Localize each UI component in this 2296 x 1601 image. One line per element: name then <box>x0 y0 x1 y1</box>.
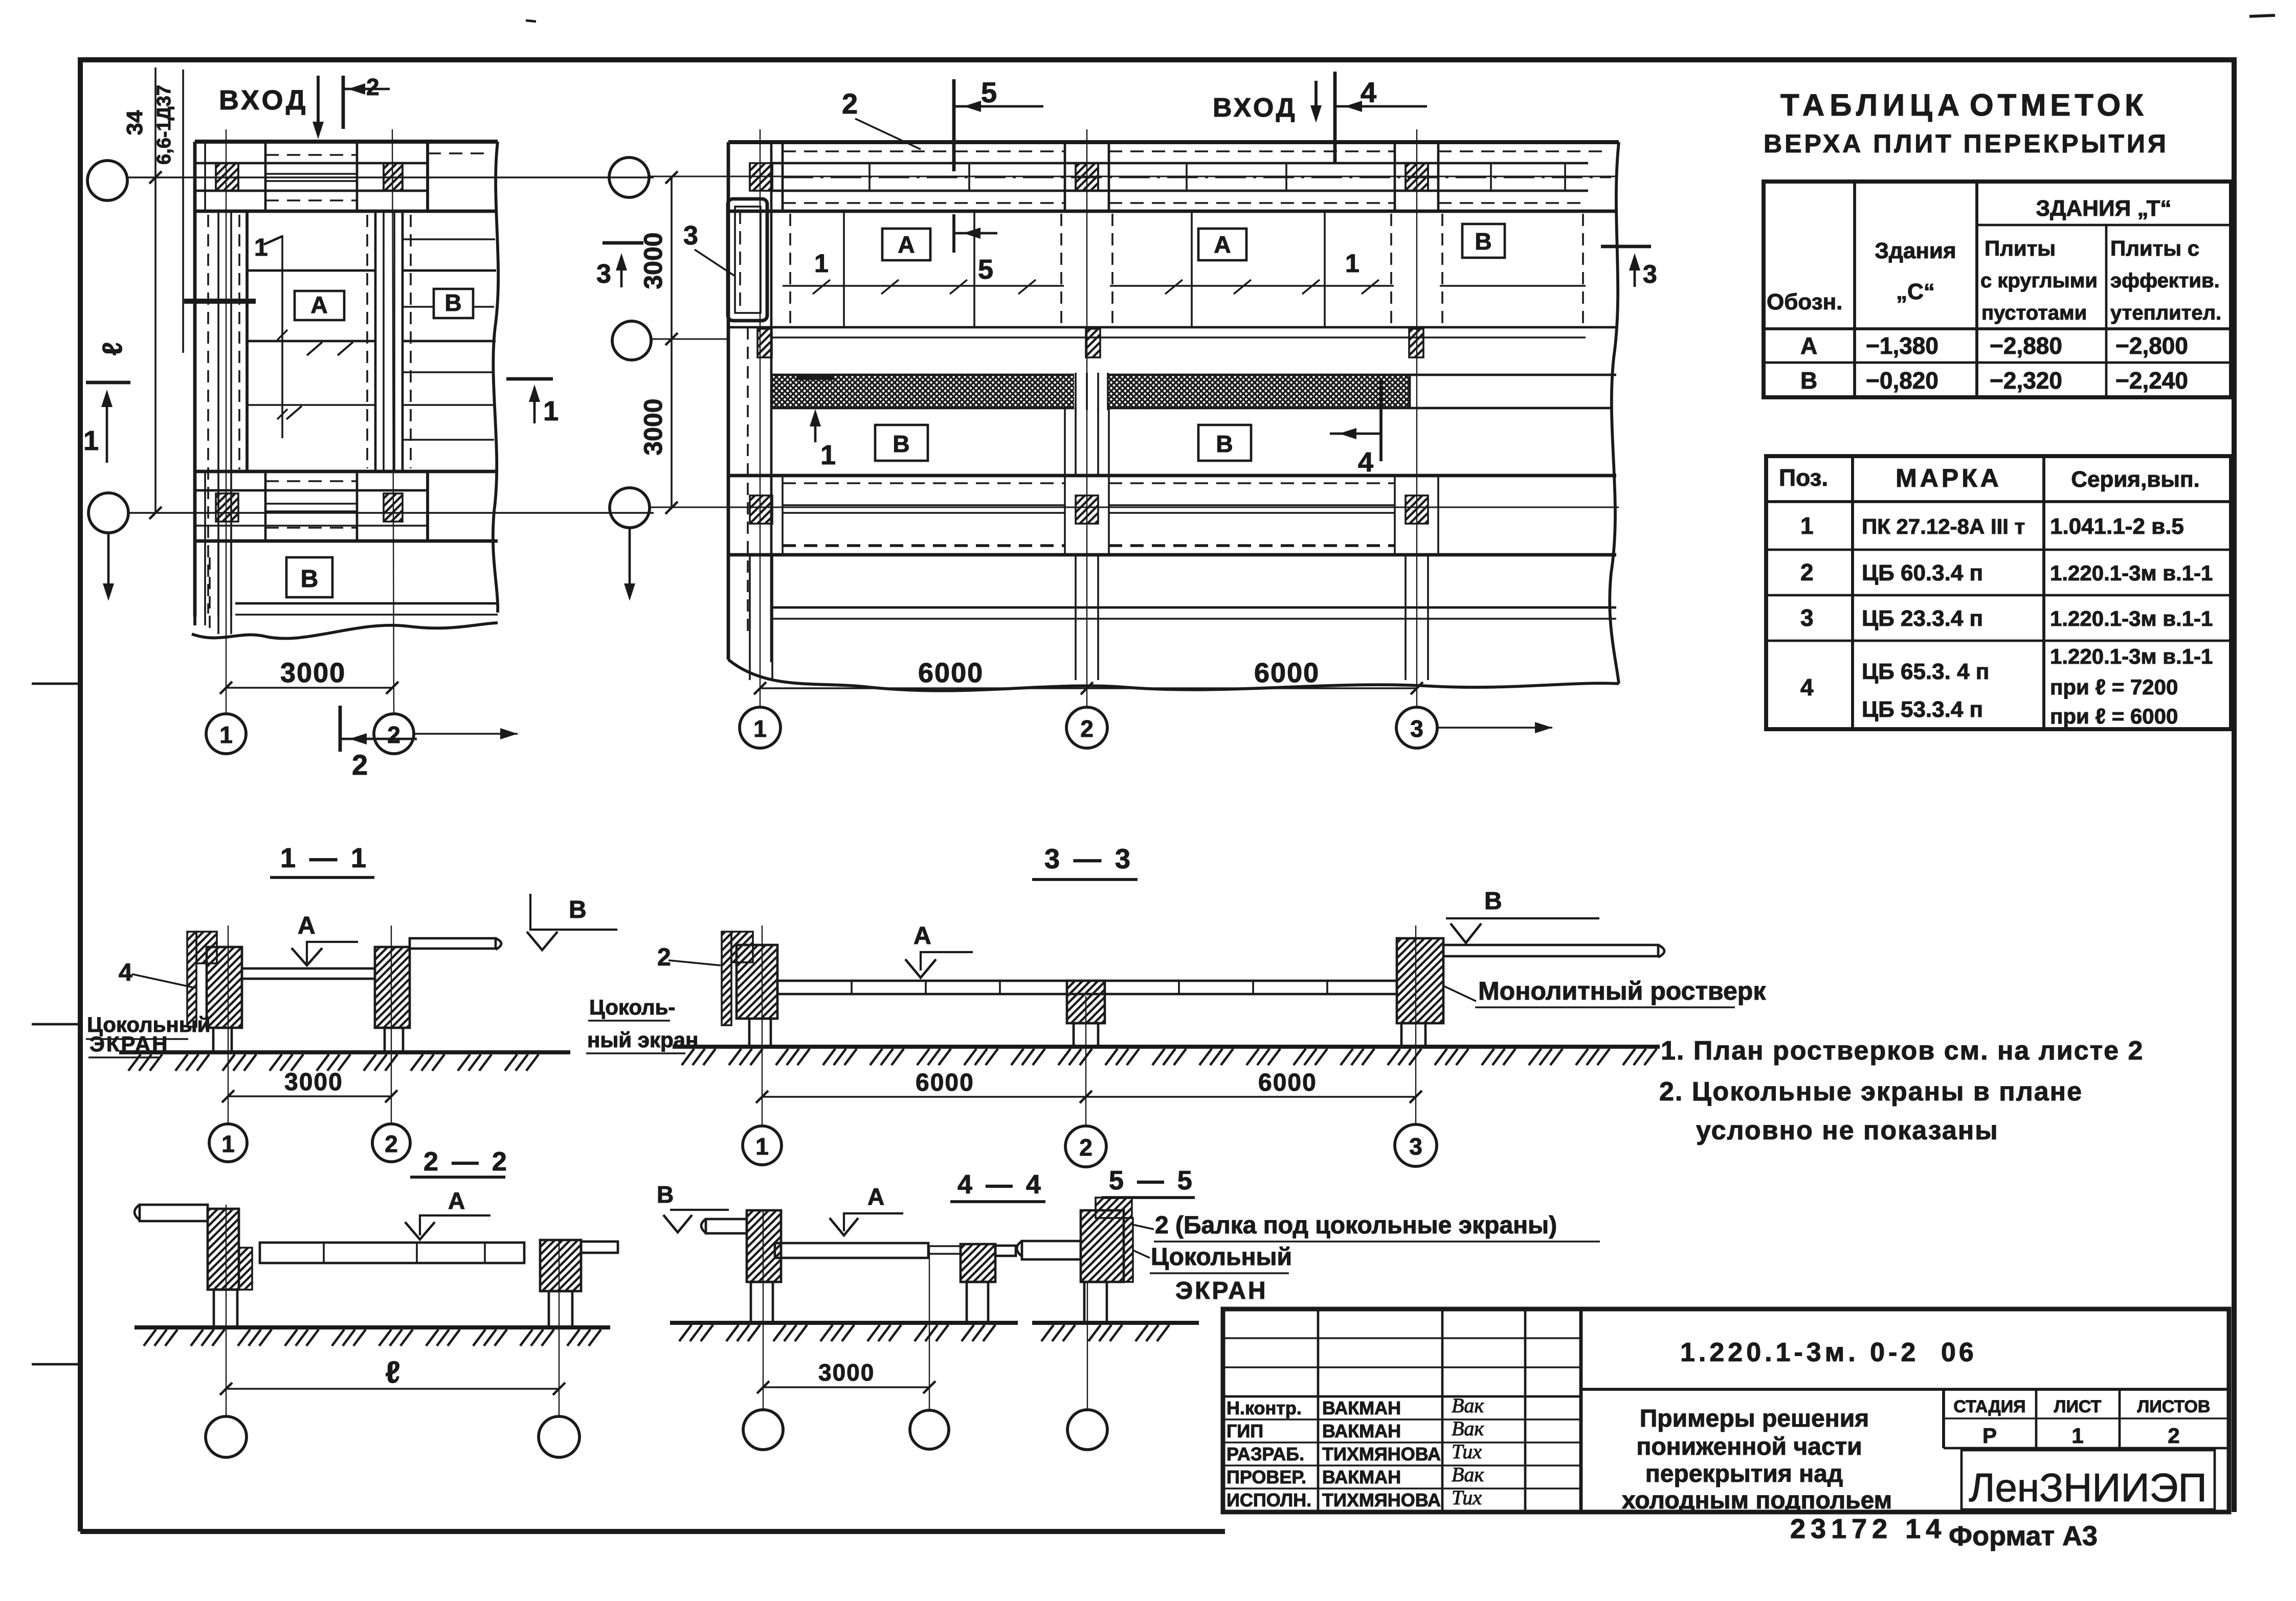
middle plan top band outer edge <box>728 140 1619 144</box>
svg-text:ТИХМЯНОВА: ТИХМЯНОВА <box>1322 1490 1441 1510</box>
svg-text:6000: 6000 <box>1254 658 1320 688</box>
svg-text:ℓ: ℓ <box>97 342 128 355</box>
middle plan grid bubble 3 <box>1396 707 1437 748</box>
sec22 axis 1 <box>226 1205 227 1416</box>
middle plan top band dashed <box>783 150 1065 152</box>
middle plan left edge dashed <box>747 327 749 632</box>
svg-text:1: 1 <box>753 715 767 742</box>
svg-text:ЦБ 65.3. 4 п: ЦБ 65.3. 4 п <box>1862 659 1989 684</box>
svg-text:34: 34 <box>122 110 147 135</box>
left plan dimension line 3000 <box>226 687 392 689</box>
svg-text:1 — 1: 1 — 1 <box>280 843 369 873</box>
svg-text:РАЗРАБ.: РАЗРАБ. <box>1227 1444 1304 1464</box>
left plan dim extension line a <box>154 67 157 513</box>
middle plan dimension line <box>760 687 1417 689</box>
svg-text:А: А <box>1800 332 1817 359</box>
middle plan grid circle B <box>612 321 651 360</box>
svg-text:Тих: Тих <box>1452 1440 1482 1463</box>
left plan top wall column hatch 1 <box>216 163 238 191</box>
left plan bottom porch verticals <box>193 541 196 625</box>
fold mark left 3 <box>32 1363 80 1366</box>
svg-text:ЭКРАН: ЭКРАН <box>1175 1277 1268 1304</box>
svg-text:4: 4 <box>119 959 132 986</box>
sec11 right pier <box>375 947 410 1028</box>
sec22 right ledge <box>581 1242 618 1253</box>
left plan room label B1 <box>434 289 473 318</box>
sec22 dim line <box>226 1388 559 1390</box>
svg-text:1: 1 <box>221 1131 235 1157</box>
sec44 ground <box>670 1321 1018 1325</box>
svg-text:А: А <box>298 912 316 939</box>
sec55 side plate <box>1124 1218 1133 1282</box>
svg-text:ИСПОЛН.: ИСПОЛН. <box>1227 1490 1311 1510</box>
middle plan bottom slab joint 2 <box>771 618 1616 620</box>
sec22 bubble 2 <box>539 1416 579 1457</box>
middle plan lower band hatch c3 <box>1406 495 1428 524</box>
sec44 left slab <box>706 1219 747 1233</box>
sec33 bubble 1 <box>743 1126 782 1165</box>
svg-text:с круглыми: с круглыми <box>1980 269 2098 292</box>
svg-text:2 (Балка под цокольные экраны): 2 (Балка под цокольные экраны) <box>1155 1212 1557 1239</box>
sec55 top bracket <box>1096 1198 1132 1218</box>
middle plan strip lines right <box>1410 374 1616 376</box>
left plan top wall verticals <box>193 142 197 211</box>
middle plan top band col verticals <box>782 142 784 211</box>
svg-text:А: А <box>867 1183 884 1210</box>
middle plan room box B2 <box>1198 425 1251 461</box>
sec33 ground <box>673 1045 1660 1049</box>
middle plan rooms A sill line <box>783 285 1064 287</box>
middle plan room box B right <box>1462 224 1505 258</box>
title block outer <box>1223 1309 2229 1512</box>
sec44 bubble 1 <box>743 1410 783 1450</box>
left plan section marker 2 bottom <box>339 706 342 752</box>
left plan section marker 1 right <box>506 377 553 381</box>
sec22 floor slab <box>260 1243 524 1263</box>
middle plan top band bottom <box>728 210 1616 213</box>
left plan grid line B <box>129 512 654 514</box>
svg-text:ВХОД: ВХОД <box>219 85 308 116</box>
title block stage table verticals <box>1942 1389 1945 1448</box>
middle plan lower band top <box>728 474 1616 478</box>
svg-text:условно не показаны: условно не показаны <box>1696 1116 1999 1145</box>
svg-text:Цокольный: Цокольный <box>1151 1244 1292 1271</box>
table1 v line 3 <box>2105 225 2108 397</box>
svg-text:Плиты: Плиты <box>1985 236 2056 260</box>
svg-text:Примеры решения: Примеры решения <box>1640 1405 1869 1432</box>
svg-text:Вак: Вак <box>1452 1394 1484 1417</box>
svg-text:В: В <box>301 566 319 593</box>
svg-text:1.220.1-3м в.1-1: 1.220.1-3м в.1-1 <box>2050 606 2213 630</box>
svg-text:1: 1 <box>1345 249 1359 278</box>
left plan grid axis 2 vertical <box>392 129 394 714</box>
left plan mid band bottom <box>195 539 498 543</box>
svg-text:2. Цокольные экраны в плане: 2. Цокольные экраны в плане <box>1659 1077 2083 1107</box>
sec44 left column <box>751 1282 773 1323</box>
sec11 top hat <box>196 932 217 963</box>
svg-text:3: 3 <box>596 259 611 289</box>
svg-text:ЗДАНИЯ „Т“: ЗДАНИЯ „Т“ <box>2036 196 2172 221</box>
svg-text:ВАКМАН: ВАКМАН <box>1322 1467 1401 1487</box>
sec33 bubble 2 <box>1065 1126 1106 1167</box>
middle plan grid axis 2 <box>1086 129 1087 707</box>
svg-text:3000: 3000 <box>818 1359 875 1386</box>
left plan top wall column hatch 2 <box>384 163 403 191</box>
middle plan rooms A window ticks <box>813 280 830 294</box>
svg-text:5 — 5: 5 — 5 <box>1109 1166 1195 1196</box>
svg-text:06: 06 <box>1941 1338 1977 1367</box>
sec33 slab joints <box>851 981 853 994</box>
svg-text:2: 2 <box>657 944 671 971</box>
left plan section marker 1 left <box>86 381 130 385</box>
svg-text:3: 3 <box>1643 260 1657 288</box>
left plan partition wall <box>374 211 377 471</box>
svg-text:ЛИСТОВ: ЛИСТОВ <box>2137 1397 2211 1416</box>
left plan dim extension line b <box>182 70 184 353</box>
left plan bottom slab joint <box>235 602 498 605</box>
left plan top wall beam lines <box>265 173 357 175</box>
svg-text:А: А <box>913 922 931 950</box>
svg-text:1. План ростверков см. на лист: 1. План ростверков см. на листе 2 <box>1661 1036 2144 1066</box>
middle plan section marker 4 bottom <box>1379 379 1383 461</box>
middle plan top band hatch c3 <box>1406 163 1428 191</box>
svg-text:В: В <box>1216 431 1233 457</box>
svg-text:ЛИСТ: ЛИСТ <box>2054 1397 2102 1416</box>
middle plan top band inner 1 <box>771 162 1588 165</box>
svg-text:6000: 6000 <box>916 1069 974 1096</box>
sec22 ground <box>135 1325 610 1329</box>
middle plan rooms A dashed walls <box>789 214 791 325</box>
svg-text:3: 3 <box>1800 604 1814 631</box>
sec33 right column <box>1401 1023 1425 1047</box>
svg-text:ЛенЗНИИЭП: ЛенЗНИИЭП <box>1969 1465 2206 1510</box>
sec33 dim line <box>762 1096 1416 1098</box>
svg-text:В: В <box>893 431 909 457</box>
svg-text:3: 3 <box>1409 1133 1422 1160</box>
middle plan view arrow right <box>1437 727 1552 729</box>
middle plan lower band hatch c2 <box>1076 495 1098 524</box>
middle plan strip callout 1 <box>796 376 834 380</box>
left plan bottom porch dashed <box>209 557 211 632</box>
sec11 left column <box>213 1028 232 1052</box>
svg-text:перекрытия над: перекрытия над <box>1645 1460 1843 1487</box>
left plan top wall bottom edge <box>195 210 498 213</box>
svg-text:В: В <box>1800 367 1817 394</box>
svg-text:−2,320: −2,320 <box>1990 367 2062 394</box>
middle plan mid band hatch c1 <box>757 329 772 357</box>
svg-text:1: 1 <box>219 721 233 748</box>
sec33 left pier <box>737 945 777 1019</box>
middle plan grid line 2 <box>651 339 728 340</box>
middle plan top band inner 2 <box>771 190 1588 192</box>
sec33 mid column <box>1074 1023 1098 1047</box>
middle plan grid circle A <box>609 157 649 197</box>
svg-text:1: 1 <box>543 396 559 426</box>
title block h split <box>1581 1388 2229 1391</box>
svg-text:ЦБ 23.3.4 п: ЦБ 23.3.4 п <box>1862 606 1983 631</box>
svg-text:пониженной части: пониженной части <box>1636 1433 1862 1460</box>
svg-text:А: А <box>898 231 915 258</box>
svg-text:2: 2 <box>1080 715 1094 742</box>
svg-text:СТАДИЯ: СТАДИЯ <box>1953 1397 2025 1416</box>
sec33 upper slab right <box>1443 945 1658 956</box>
sec33 axis 1 <box>762 926 763 1125</box>
svg-text:Серия,вып.: Серия,вып. <box>2071 467 2200 492</box>
svg-text:ЦБ 53.3.4 п: ЦБ 53.3.4 п <box>1862 697 1983 722</box>
middle plan top band hatch c2 <box>1076 163 1098 191</box>
middle plan mid band hatch c2 <box>1086 329 1100 357</box>
svg-text:2: 2 <box>842 87 858 120</box>
middle plan section marker 5 bottom <box>952 214 955 253</box>
svg-text:А: А <box>310 291 327 318</box>
svg-text:ТАБЛИЦА: ТАБЛИЦА <box>1780 88 1965 122</box>
title block org box <box>1961 1450 2215 1509</box>
middle plan rooms B mid wall <box>1064 408 1066 476</box>
middle plan lower band dashed <box>783 482 1065 484</box>
svg-text:4: 4 <box>1800 674 1814 701</box>
sec44 axis 2 <box>929 1246 930 1410</box>
sec55 left slab <box>1022 1241 1081 1259</box>
left plan top wall dashed lines <box>265 154 357 156</box>
left plan slab leader line <box>281 235 283 438</box>
svg-text:1: 1 <box>820 440 836 470</box>
sec22 right pier <box>540 1240 581 1291</box>
left plan top wall inner line 1 <box>195 162 428 165</box>
sec55 bubble <box>1067 1410 1107 1450</box>
left plan left wall dashed <box>207 215 209 614</box>
middle plan lower band bottom <box>728 553 1616 557</box>
left plan room A window ticks <box>307 342 322 355</box>
svg-text:5: 5 <box>978 254 993 285</box>
middle plan section marker 3 right <box>1601 245 1651 249</box>
table2 v line 1 <box>1851 456 1854 729</box>
left plan room B slab joints <box>403 238 495 240</box>
sec55 pier <box>1081 1210 1124 1282</box>
middle plan grid axis 1 <box>760 129 761 707</box>
table2 v line 2 <box>2042 456 2045 729</box>
middle plan lower band hatch c1 <box>750 495 772 524</box>
middle plan entrance arrow <box>1314 81 1318 108</box>
svg-text:пустотами: пустотами <box>1981 302 2087 324</box>
sec11 upper slab right <box>410 938 496 949</box>
svg-text:Р: Р <box>1982 1424 1997 1448</box>
sec55 axis <box>1087 1282 1088 1410</box>
svg-text:ВАКМАН: ВАКМАН <box>1322 1420 1401 1441</box>
svg-text:4 — 4: 4 — 4 <box>957 1170 1044 1200</box>
title block left table verticals <box>1317 1309 1320 1512</box>
middle plan grid bubble 2 <box>1066 707 1107 748</box>
sec33 floor slab <box>777 981 1397 994</box>
left plan top wall inner line 2 <box>195 190 428 192</box>
svg-text:при ℓ = 7200: при ℓ = 7200 <box>2050 675 2178 699</box>
middle plan room box A2 <box>1198 229 1246 260</box>
sec11 dim line <box>228 1095 391 1097</box>
table2 outer box <box>1766 456 2231 729</box>
left plan bottom wavy edge <box>192 623 498 639</box>
middle plan rooms A partitions <box>843 211 845 327</box>
sec44 bubble 2 <box>910 1410 949 1449</box>
svg-text:1: 1 <box>1800 512 1814 539</box>
left plan view arrow right <box>414 733 518 735</box>
middle plan vertical dim line <box>671 176 673 509</box>
svg-text:1: 1 <box>254 234 268 261</box>
svg-text:3000: 3000 <box>639 232 667 289</box>
left plan mid band top <box>195 470 498 473</box>
left plan grid B down arrow <box>107 533 110 585</box>
sec33 left column <box>749 1019 771 1047</box>
svg-text:В: В <box>444 289 461 316</box>
sec44 floor slab <box>775 1243 928 1258</box>
svg-text:ОТМЕТОК: ОТМЕТОК <box>1970 88 2148 122</box>
table1 h line zdaniya T <box>1977 224 2231 227</box>
sec33 top hat <box>731 932 753 962</box>
svg-text:−2,800: −2,800 <box>2115 332 2188 359</box>
middle plan mid band line <box>771 336 1586 339</box>
left plan top wall centerline <box>265 177 494 178</box>
svg-text:1: 1 <box>814 249 829 278</box>
sec55 column <box>1084 1282 1107 1323</box>
sec22 axis 2 <box>559 1240 560 1416</box>
middle plan lower band dashed2 <box>783 545 1065 547</box>
svg-text:ВЕРХА ПЛИТ ПЕРЕКРЫТИЯ: ВЕРХА ПЛИТ ПЕРЕКРЫТИЯ <box>1764 129 2169 158</box>
svg-text:Вак: Вак <box>1452 1417 1484 1440</box>
left plan mid band column hatch 2 <box>384 493 403 522</box>
svg-text:Н.контр.: Н.контр. <box>1227 1397 1302 1418</box>
svg-text:3: 3 <box>1410 715 1423 742</box>
sec44 dim line <box>763 1386 929 1388</box>
svg-text:2: 2 <box>1800 559 1814 585</box>
svg-text:1: 1 <box>2071 1424 2083 1448</box>
svg-text:А: А <box>448 1187 465 1214</box>
table1 h line row B <box>1764 362 2231 364</box>
left plan mid band dashed <box>265 480 357 482</box>
svg-text:3 — 3: 3 — 3 <box>1044 844 1133 874</box>
svg-text:6000: 6000 <box>1258 1069 1317 1096</box>
middle plan grid circle C <box>610 488 650 528</box>
middle plan grid bubble 1 <box>740 707 781 748</box>
svg-text:Формат А3: Формат А3 <box>1949 1521 2098 1551</box>
sec33 axis 3 <box>1415 926 1416 1125</box>
left plan grid bubble 2 <box>374 714 414 754</box>
sec22 left column <box>214 1290 237 1327</box>
svg-text:ЦБ 60.3.4 п: ЦБ 60.3.4 п <box>1862 560 1983 585</box>
svg-text:−2,240: −2,240 <box>2115 367 2188 394</box>
table2 h header <box>1766 500 2231 503</box>
left plan mid band beam lines <box>265 503 357 505</box>
svg-text:2: 2 <box>2168 1424 2179 1448</box>
sec22 right column <box>549 1291 572 1327</box>
stray mark top mid <box>526 20 536 21</box>
sec11 left pier <box>207 947 242 1028</box>
left plan grid line A <box>127 176 654 178</box>
svg-text:В: В <box>1484 888 1502 915</box>
sec33 screen plate <box>722 932 731 1025</box>
svg-text:5: 5 <box>981 76 997 108</box>
middle plan grid line 3 <box>650 507 1619 508</box>
svg-text:1: 1 <box>755 1133 769 1160</box>
svg-text:Здания: Здания <box>1875 238 1956 263</box>
fold mark left 1 <box>32 683 80 685</box>
left plan grid bubble 1 <box>206 714 246 754</box>
svg-text:6000: 6000 <box>918 658 984 688</box>
middle plan lower band verticals <box>782 476 784 555</box>
svg-text:2: 2 <box>1079 1134 1093 1161</box>
left plan section marker 2 top <box>342 76 345 129</box>
table1 v line 1 <box>1853 182 1856 397</box>
middle plan mid band hatch c3 <box>1409 329 1423 357</box>
svg-text:ℓ: ℓ <box>385 1355 400 1389</box>
svg-text:Тих: Тих <box>1452 1486 1482 1509</box>
sec33 bubble 3 <box>1395 1124 1437 1166</box>
svg-text:−2,880: −2,880 <box>1990 332 2062 359</box>
middle plan section marker 3 left <box>603 241 643 245</box>
sec33 axis 2 <box>1085 996 1086 1126</box>
table2 h r1 <box>1766 549 2231 551</box>
sec55 leader ekran <box>1133 1250 1150 1258</box>
sec44 right column <box>967 1282 988 1323</box>
svg-text:В: В <box>1475 228 1491 255</box>
svg-text:4: 4 <box>1358 447 1373 478</box>
middle plan top band window mullions <box>868 163 871 191</box>
svg-text:утеплител.: утеплител. <box>2110 302 2221 324</box>
sec11 bubble 2 <box>372 1124 410 1162</box>
middle plan mid band top <box>728 326 1616 329</box>
svg-text:Поз.: Поз. <box>1779 464 1828 491</box>
left plan grid circle B <box>88 493 128 533</box>
svg-text:А: А <box>1214 231 1231 258</box>
sec44 left pier <box>747 1210 781 1282</box>
sec11 right column <box>385 1028 403 1052</box>
sec22 left pier ledge <box>239 1248 252 1290</box>
svg-text:В: В <box>569 896 587 923</box>
sec33 right pier <box>1397 938 1443 1023</box>
svg-text:холодным подпольем: холодным подпольем <box>1622 1487 1892 1514</box>
left plan room label A <box>295 291 344 320</box>
left plan mid band line1 <box>195 489 428 492</box>
svg-text:3000: 3000 <box>639 398 667 455</box>
sec44 right pier <box>961 1244 995 1282</box>
svg-text:2: 2 <box>387 721 400 748</box>
svg-text:ВАКМАН: ВАКМАН <box>1322 1397 1401 1418</box>
table2 h r3 <box>1766 640 2231 642</box>
left plan section 1 cut line <box>184 299 256 304</box>
sec11 axis 2 <box>391 926 392 1124</box>
sec33 leader rostverk <box>1443 986 1476 1001</box>
svg-text:при ℓ = 6000: при ℓ = 6000 <box>2050 704 2178 728</box>
svg-text:эффектив.: эффектив. <box>2110 269 2220 292</box>
svg-text:Вак: Вак <box>1452 1463 1484 1486</box>
svg-text:3000: 3000 <box>280 658 346 688</box>
table2 h r2 <box>1766 594 2231 597</box>
svg-text:2 — 2: 2 — 2 <box>423 1147 510 1177</box>
svg-text:В: В <box>657 1181 674 1208</box>
svg-text:ПРОВЕР.: ПРОВЕР. <box>1227 1467 1306 1487</box>
left plan partition dashed <box>366 215 368 468</box>
svg-text:1.041.1-2 в.5: 1.041.1-2 в.5 <box>2050 514 2184 539</box>
left plan mid band line2 <box>195 525 428 527</box>
svg-text:ГИП: ГИП <box>1227 1420 1263 1441</box>
svg-text:ТИХМЯНОВА: ТИХМЯНОВА <box>1322 1444 1441 1464</box>
svg-text:„С“: „С“ <box>1896 279 1935 304</box>
sec22 bubble 1 <box>206 1416 247 1457</box>
sec11 bubble 1 <box>209 1124 247 1162</box>
middle plan left edge <box>727 142 730 660</box>
sec55 ground <box>1032 1321 1199 1325</box>
svg-text:Цоколь-: Цоколь- <box>589 995 675 1019</box>
svg-text:−1,380: −1,380 <box>1866 332 1938 359</box>
sec22 left pier <box>208 1209 239 1290</box>
left plan room label B2 <box>286 557 332 597</box>
